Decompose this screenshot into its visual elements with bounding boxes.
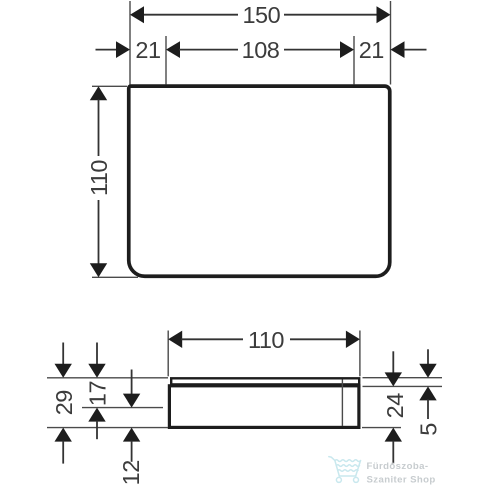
extension line bottom-left (y=277.3) — [92, 276, 138, 278]
dimension 110 (side view): left arrow — [168, 331, 182, 348]
svg-text:110: 110 — [86, 160, 112, 196]
extension line left edge (x=130) — [129, 1, 131, 85]
dimension 108: left arrow — [166, 41, 180, 58]
svg-text:29: 29 — [51, 390, 77, 415]
dimension 150: right arrow — [377, 6, 391, 23]
dimension 12: bottom arrow — [123, 428, 140, 462]
dimension 108: line — [179, 49, 341, 51]
dimension 24: bottom arrow — [385, 428, 402, 464]
svg-text:Szaniter Shop: Szaniter Shop — [367, 475, 436, 486]
dimension 21 left: outside arrow — [96, 41, 131, 58]
svg-text:12: 12 — [118, 460, 144, 485]
logo: shopping cart handle — [329, 457, 335, 461]
logo: cart bottom — [339, 475, 355, 477]
extension line left bottom (y=427.6) — [47, 427, 168, 429]
dimension 21 right: outside arrow — [391, 41, 427, 58]
dimension 110 (top view): line — [98, 99, 100, 264]
logo: cart basket rim (wavy) — [335, 460, 361, 462]
extension line left middle (y=407.6) — [82, 407, 163, 409]
side view: inner vertical line (wall bracket) — [341, 380, 343, 427]
dimension 12: top arrow — [123, 370, 140, 408]
extension line right middle (y=386.4) — [363, 385, 443, 387]
dimension 29: bottom arrow — [55, 428, 72, 464]
dimension 108: right arrow — [340, 41, 354, 58]
extension line right edge (x=390.5) — [390, 1, 392, 85]
extension line x=166 (21/108 boundary left) — [165, 36, 167, 85]
extension line left top (y=377.8) — [47, 377, 168, 379]
extension line side-view right (x=359.9) — [359, 331, 361, 377]
logo: cart right wheel — [354, 477, 359, 482]
dimension 29: top arrow — [55, 343, 72, 378]
svg-text:21: 21 — [359, 37, 384, 63]
svg-text:150: 150 — [242, 2, 280, 28]
extension line right bottom (y=427.6) — [362, 427, 401, 429]
dimension 110 (side view): right arrow — [346, 331, 360, 348]
logo: cart basket right side — [356, 461, 361, 476]
top view outline (shelf seen from above) — [129, 86, 390, 276]
dimension 150: line — [143, 14, 378, 16]
dimension 150: left arrow — [130, 6, 144, 23]
logo: cart left wheel — [336, 477, 341, 482]
svg-text:24: 24 — [382, 393, 408, 419]
dimension 24: top arrow — [385, 351, 402, 386]
dimension 110 (side view): line — [181, 338, 347, 340]
extension line side-view left (x=168.2) — [167, 331, 169, 377]
logo: cart wave line 1 — [336, 465, 359, 467]
svg-text:108: 108 — [242, 37, 280, 63]
logo: cart basket left side — [335, 461, 339, 476]
extension line top-left (y=86.3) — [92, 85, 127, 87]
svg-text:Fürdőszoba-: Fürdőszoba- — [367, 461, 429, 472]
extension line x=354 (108/21 boundary right) — [353, 36, 355, 85]
side view: holder body — [169, 386, 359, 428]
svg-text:17: 17 — [85, 381, 111, 406]
svg-text:5: 5 — [416, 423, 442, 436]
svg-text:21: 21 — [135, 37, 160, 63]
logo: cart wave line 2 — [338, 470, 358, 472]
side view: glass plate — [171, 378, 359, 384]
svg-text:110: 110 — [248, 327, 284, 353]
dimension 17: top arrow — [88, 343, 105, 378]
extension line right top (y=377.7) — [363, 377, 443, 379]
dimension 5: bottom arrow — [419, 386, 436, 419]
dimension 110 (top view): up arrow — [90, 86, 107, 100]
dimension 5: top arrow — [419, 349, 436, 377]
dimension 110 (top view): down arrow — [90, 263, 107, 277]
dimension 17: bottom arrow — [88, 408, 105, 440]
